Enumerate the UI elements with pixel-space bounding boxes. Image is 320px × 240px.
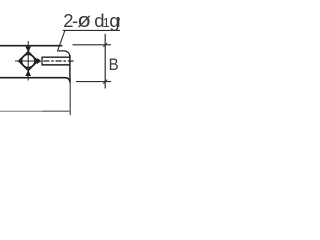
background: [0, 0, 120, 144]
leader shoulder under text: [63, 29, 120, 31]
svg-text:r: r: [116, 10, 120, 31]
dimension B extension line top: [73, 44, 112, 46]
wire: stepped top surface with rounded corner to right edge: [57, 51, 70, 57]
dimension B extension line bottom: [76, 81, 111, 83]
ball race diamond: [19, 52, 38, 71]
tick bottom: [103, 80, 107, 84]
dimension B line vertical: [104, 34, 106, 89]
grease hole left end: [41, 57, 43, 66]
arrowhead down at bottom face: [25, 70, 31, 76]
wire: lower step horizontal (faint): [0, 110, 42, 112]
node: horizontal centerline through ball and hole: [15, 60, 39, 62]
svg-text:B: B: [109, 56, 119, 74]
wire: right edge lower portion: [69, 78, 71, 115]
ball circle: [22, 54, 35, 67]
wire: bottom face line with rounded corner: [0, 78, 70, 83]
wire: right edge of ring: [69, 55, 71, 79]
arrowhead right at hole start: [37, 58, 42, 64]
arrowhead up at top face: [25, 47, 31, 53]
svg-text:ø: ø: [77, 9, 91, 31]
leader line diagonal: [57, 31, 64, 52]
grease hole bottom edge: [42, 64, 70, 66]
grease hole top edge: [42, 56, 70, 58]
node: vertical centerline through ball: [27, 41, 29, 81]
wire: top face line of ring: [0, 45, 62, 47]
tick top: [103, 43, 107, 47]
